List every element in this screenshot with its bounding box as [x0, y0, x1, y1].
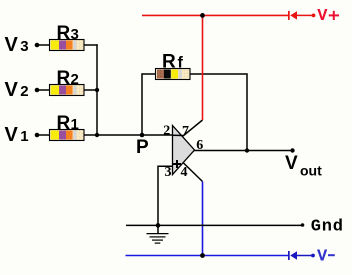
op-amp plus sign — [173, 160, 181, 168]
resistor R1 — [50, 130, 85, 141]
V- rail (blue) — [126, 255, 289, 257]
label V+ — [317, 7, 339, 26]
wire V2 to R2 — [38, 89, 50, 91]
wire pin 3 to ground — [158, 166, 173, 225]
svg-text:4: 4 — [181, 165, 188, 180]
wire P up to Rf — [142, 74, 156, 135]
wire V- vertical (blue) — [202, 182, 204, 256]
wire R2 to bus — [84, 89, 97, 91]
svg-text:2: 2 — [163, 124, 170, 139]
label P — [136, 137, 149, 158]
svg-text:3: 3 — [20, 38, 28, 55]
op-amp U1 — [173, 126, 195, 175]
wire V1 to R1 — [38, 134, 50, 136]
label R1 — [57, 113, 79, 134]
V+ connector symbol — [288, 11, 315, 20]
label Gnd — [311, 218, 344, 237]
svg-text:V: V — [317, 247, 328, 266]
wire input bus vertical — [96, 44, 98, 135]
node P junction — [140, 133, 145, 138]
pin 4 label — [181, 165, 188, 180]
svg-text:Gnd: Gnd — [311, 218, 344, 237]
node Gnd terminal — [301, 223, 305, 227]
svg-text:V: V — [285, 153, 298, 174]
resistor R2 — [50, 85, 85, 96]
label Vout — [285, 153, 322, 179]
label Rf — [162, 52, 184, 73]
pin 2 label — [163, 124, 170, 139]
wire V+ vertical (red) — [202, 15, 204, 120]
ground symbol — [147, 225, 169, 243]
svg-text:3: 3 — [165, 165, 172, 180]
wire output — [194, 150, 293, 152]
pin 7 label — [182, 124, 189, 139]
junction bus-R1 — [95, 133, 99, 137]
pin 3 label — [165, 165, 172, 180]
svg-text:V: V — [5, 124, 19, 146]
svg-text:V: V — [5, 79, 19, 101]
svg-text:P: P — [136, 137, 149, 158]
label V2 — [5, 79, 29, 101]
pin 6 label — [196, 138, 203, 153]
junction V- rail — [200, 253, 205, 258]
label R2 — [57, 68, 79, 89]
resistor Rf — [156, 69, 191, 80]
node V3 terminal — [35, 43, 40, 48]
label V1 — [5, 124, 29, 146]
label R3 — [57, 23, 79, 44]
Gnd rail — [126, 224, 303, 226]
svg-text:V: V — [5, 34, 19, 56]
V- connector symbol — [288, 251, 315, 260]
resistor R3 — [50, 40, 85, 51]
wire R3 to bus — [84, 44, 98, 46]
wire pin 4 to V- rail — [184, 163, 203, 182]
node V2 terminal — [35, 88, 40, 93]
svg-text:out: out — [300, 163, 322, 179]
wire V3 to R3 — [38, 44, 50, 46]
wire pin 7 to V+ rail — [183, 120, 203, 136]
node Vout terminal — [290, 148, 294, 152]
V+ rail (red) — [142, 14, 289, 16]
op-amp minus input stub — [173, 134, 184, 136]
junction output-Rf — [245, 148, 249, 152]
junction V+ rail — [200, 13, 205, 18]
wire R1 to node P and op-amp — [84, 134, 173, 136]
label V- — [317, 247, 335, 266]
junction ground — [156, 223, 161, 228]
junction bus-R2 — [95, 88, 99, 92]
svg-text:1: 1 — [20, 128, 28, 145]
svg-text:V: V — [317, 7, 328, 26]
node V1 terminal — [35, 133, 40, 138]
svg-text:2: 2 — [20, 83, 28, 100]
wire Rf to output node — [190, 74, 247, 151]
label V3 — [5, 34, 29, 56]
